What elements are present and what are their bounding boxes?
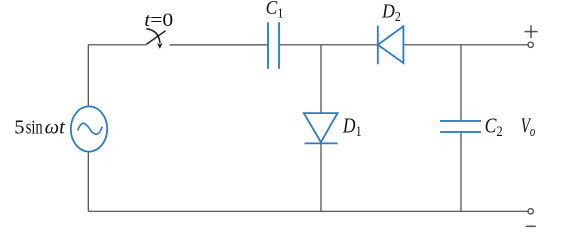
svg-text:ωt: ωt — [45, 116, 66, 138]
svg-text:5: 5 — [14, 116, 24, 138]
svg-text:sin: sin — [26, 115, 43, 138]
svg-text:t=0: t=0 — [144, 10, 173, 31]
